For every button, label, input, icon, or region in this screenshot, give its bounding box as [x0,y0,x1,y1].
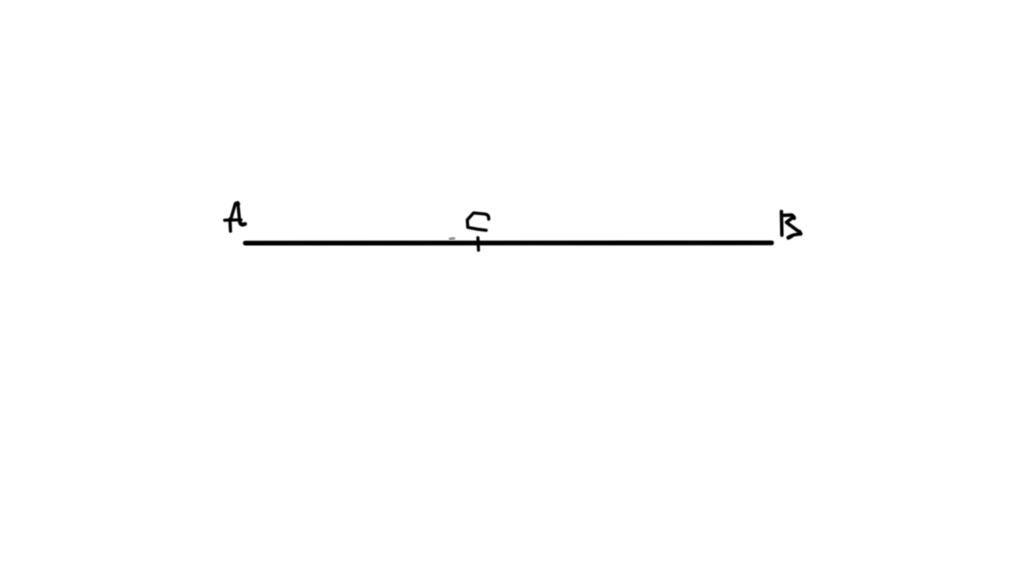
label C [467,213,488,230]
tick mark at point C [476,238,480,251]
label B [781,211,800,237]
line segment AB [245,240,771,245]
label A [225,203,245,232]
smudge on line left of C [450,237,454,240]
